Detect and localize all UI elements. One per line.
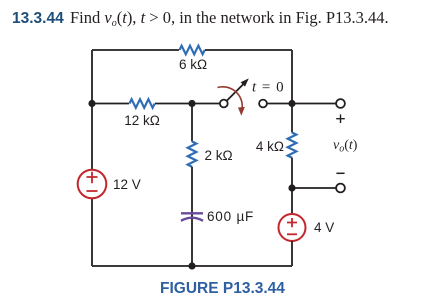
svg-text:4 V: 4 V: [314, 220, 334, 235]
wire: top horizontal (right of 6k): [205, 49, 292, 51]
svg-text:FIGURE P13.3.44: FIGURE P13.3.44: [160, 280, 285, 297]
wire: bottom horizontal: [92, 265, 292, 267]
resistor R4 2 kΩ: [188, 142, 197, 167]
node C: junction at top of 4k: [288, 100, 295, 107]
svg-text:600 µF: 600 µF: [207, 209, 254, 224]
switch SW1 left terminal: [220, 100, 228, 108]
svg-text:13.3.44: 13.3.44: [12, 10, 64, 27]
label − polarity: [336, 172, 344, 174]
svg-text:12 V: 12 V: [113, 177, 141, 192]
wire: junction to + output terminal: [292, 103, 336, 105]
svg-text:12 kΩ: 12 kΩ: [124, 113, 160, 128]
wire: 4V source to bottom wire: [291, 241, 293, 266]
svg-text:2 kΩ: 2 kΩ: [205, 148, 233, 163]
voltage source V1 12 V: [78, 170, 107, 199]
wire: switch right terminal to junction: [267, 103, 292, 105]
wire: 4k top stub: [291, 104, 293, 133]
wire: node D to − output terminal: [292, 187, 336, 189]
wire: 4k bottom to node D: [291, 158, 293, 188]
svg-text:vo(t): vo(t): [333, 138, 358, 155]
node B: junction mid wire / 2k branch: [188, 100, 195, 107]
terminal: output − (open circle): [336, 184, 345, 193]
node D: junction at bottom of 4k: [288, 184, 295, 191]
wire: left vertical: [91, 50, 93, 266]
wire: node D to 4V source: [291, 188, 293, 214]
svg-text:6 kΩ: 6 kΩ: [179, 57, 207, 72]
resistor R2 12 kΩ: [130, 99, 155, 108]
switch SW1 motion arc (dark red) with arrowhead: [218, 87, 243, 108]
node A: junction left vertical / mid wire: [88, 100, 95, 107]
wire: right vertical from top to switch row: [291, 50, 293, 104]
label + polarity: [336, 114, 345, 123]
svg-text:4 kΩ: 4 kΩ: [256, 139, 284, 154]
resistor R1 6 kΩ: [180, 46, 205, 55]
wire: top horizontal (left of 6k): [92, 49, 179, 51]
wire: mid horizontal (12k to switch): [155, 103, 220, 105]
svg-text:t = 0: t = 0: [252, 80, 285, 96]
svg-text:Find vo(t), t > 0, in the netw: Find vo(t), t > 0, in the network in Fig…: [70, 8, 389, 29]
wire: 2k bottom through capacitor to bottom wire: [191, 167, 193, 266]
wire: 2k branch top stub: [191, 104, 193, 142]
node E: junction bottom wire / capacitor branch: [188, 262, 195, 269]
capacitor C1 600 µF (curved plate): [181, 212, 203, 214]
voltage source V2 4 V: [279, 214, 306, 241]
switch SW1 right terminal: [259, 100, 267, 108]
resistor R3 4 kΩ: [288, 133, 297, 158]
terminal: output + (open circle): [336, 99, 345, 108]
switch SW1 blade with arrowhead: [227, 84, 244, 101]
wire: mid horizontal (left of 12k): [92, 103, 129, 105]
